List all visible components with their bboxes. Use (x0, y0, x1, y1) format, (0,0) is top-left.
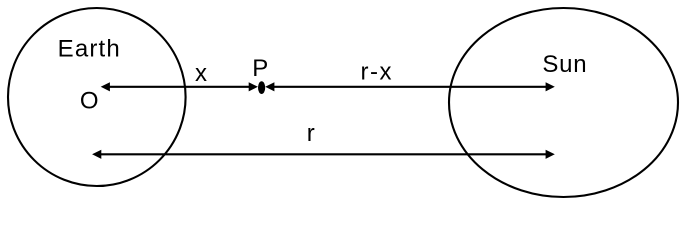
svg-text:x: x (195, 60, 207, 87)
Earth circle (8, 8, 186, 186)
Sun circle (449, 8, 678, 197)
svg-text:r-x: r-x (360, 58, 392, 85)
point P dot (258, 81, 265, 94)
arrow r: double-headed full span (92, 150, 555, 159)
svg-text:O: O (80, 88, 99, 115)
svg-text:P: P (252, 55, 268, 82)
arrow x: double-headed from O to P (101, 82, 258, 91)
svg-text:r: r (307, 120, 315, 147)
arrow r-x: double-headed from P to Sun (265, 82, 555, 91)
svg-text:Sun: Sun (542, 51, 587, 78)
svg-text:Earth: Earth (58, 35, 121, 62)
